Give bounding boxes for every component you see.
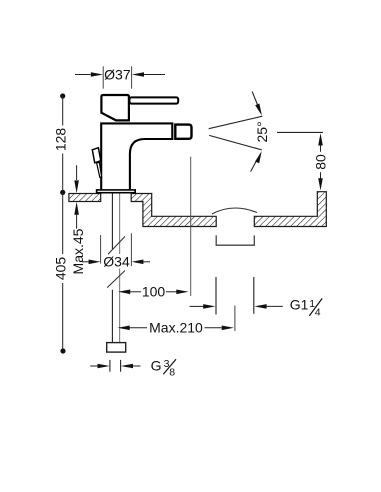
dimension 405 bbox=[53, 192, 69, 353]
counter right bottom bar and right wall (hatched L-profile) bbox=[254, 192, 326, 227]
svg-text:80: 80 bbox=[312, 154, 328, 170]
counter right rim with step down (hatched Z-profile) bbox=[131, 194, 216, 227]
dimension Ø37 bbox=[75, 66, 165, 88]
supply pipe right line bbox=[119, 193, 121, 343]
supply hose nut bbox=[107, 343, 126, 353]
pop-up knob bbox=[92, 148, 101, 163]
dimension G1 1/4 bbox=[190, 297, 323, 319]
svg-text:8: 8 bbox=[169, 366, 175, 378]
faucet handle block bbox=[101, 95, 128, 120]
svg-text:Ø34: Ø34 bbox=[103, 253, 130, 269]
dimension Ø34 bbox=[82, 233, 150, 269]
pop-up rod bbox=[97, 162, 102, 177]
drain pipe left wall bbox=[215, 277, 217, 315]
svg-text:405: 405 bbox=[53, 257, 69, 281]
pipe break slash lower bbox=[107, 271, 125, 288]
svg-text:4: 4 bbox=[315, 307, 321, 319]
svg-text:G1: G1 bbox=[290, 297, 309, 313]
faucet aerator bbox=[175, 125, 191, 139]
faucet body and spout bbox=[101, 123, 172, 189]
bidet bowl arc bbox=[212, 208, 257, 214]
svg-text:25°: 25° bbox=[254, 121, 270, 142]
supply pipe left line bbox=[111, 193, 113, 343]
svg-text:G: G bbox=[151, 357, 162, 373]
drain fitting bracket bbox=[216, 235, 254, 245]
dimension 25 degrees bbox=[209, 91, 270, 171]
dimension Max.45 bbox=[70, 165, 86, 274]
dimension 80 bbox=[277, 132, 328, 190]
dimension Max.210 bbox=[118, 306, 235, 336]
dimension 100 bbox=[118, 284, 189, 300]
aerator extension line bbox=[190, 157, 192, 296]
counter left rim bar (hatched) bbox=[69, 194, 101, 202]
svg-text:128: 128 bbox=[53, 128, 69, 152]
faucet base plate bbox=[97, 190, 136, 193]
dimension 128 bbox=[53, 93, 69, 195]
svg-text:100: 100 bbox=[142, 284, 166, 300]
faucet lever arm bbox=[130, 97, 179, 103]
drain pipe right wall bbox=[253, 277, 255, 314]
svg-text:Max.45: Max.45 bbox=[70, 228, 86, 274]
pipe break slash upper bbox=[108, 236, 125, 254]
svg-text:Ø37: Ø37 bbox=[104, 66, 131, 82]
dimension G 3/8 bbox=[90, 357, 176, 378]
svg-text:Max.210: Max.210 bbox=[149, 320, 203, 336]
